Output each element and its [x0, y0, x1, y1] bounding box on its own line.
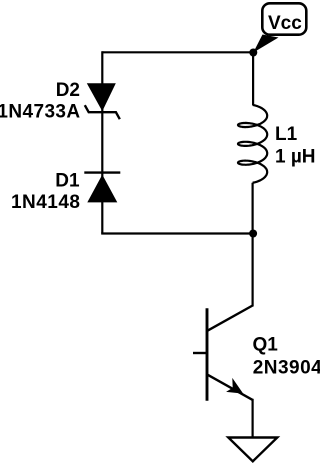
wire Vcc drop to coil [252, 52, 254, 105]
svg-text:D2: D2 [56, 80, 80, 101]
svg-text:1N4733A: 1N4733A [0, 101, 81, 122]
wire left vertical [101, 51, 103, 233]
node junction top [249, 49, 257, 57]
wire bottom rail [101, 232, 253, 234]
diode D1 (1N4148) body [87, 175, 117, 203]
ground [228, 438, 277, 462]
Vcc flag box [262, 3, 306, 34]
diode D2 zener bar [85, 105, 120, 119]
Vcc flag tail [253, 35, 278, 53]
svg-text:Q1: Q1 [253, 334, 279, 355]
svg-text:Vcc: Vcc [268, 13, 302, 34]
svg-text:2N3904: 2N3904 [253, 357, 320, 378]
wire coil to junction to collector [252, 183, 254, 307]
svg-text:1N4148: 1N4148 [11, 192, 81, 213]
inductor L1 coil [238, 105, 267, 183]
diode D1 cathode bar [84, 171, 120, 173]
svg-text:D1: D1 [55, 171, 80, 192]
transistor Q1 emitter diagonal [208, 375, 253, 400]
transistor Q1 base stub [193, 352, 207, 354]
wire top rail [102, 51, 253, 53]
wire emitter to ground [252, 399, 254, 438]
transistor Q1 base bar [206, 308, 209, 401]
node junction bottom [249, 230, 257, 238]
transistor Q1 emitter arrow [226, 378, 243, 394]
diode D2 (zener 1N4733A) body [87, 83, 116, 111]
svg-text:L1: L1 [275, 124, 298, 145]
svg-text:1 µH: 1 µH [275, 147, 316, 168]
transistor Q1 collector diagonal [208, 306, 253, 331]
